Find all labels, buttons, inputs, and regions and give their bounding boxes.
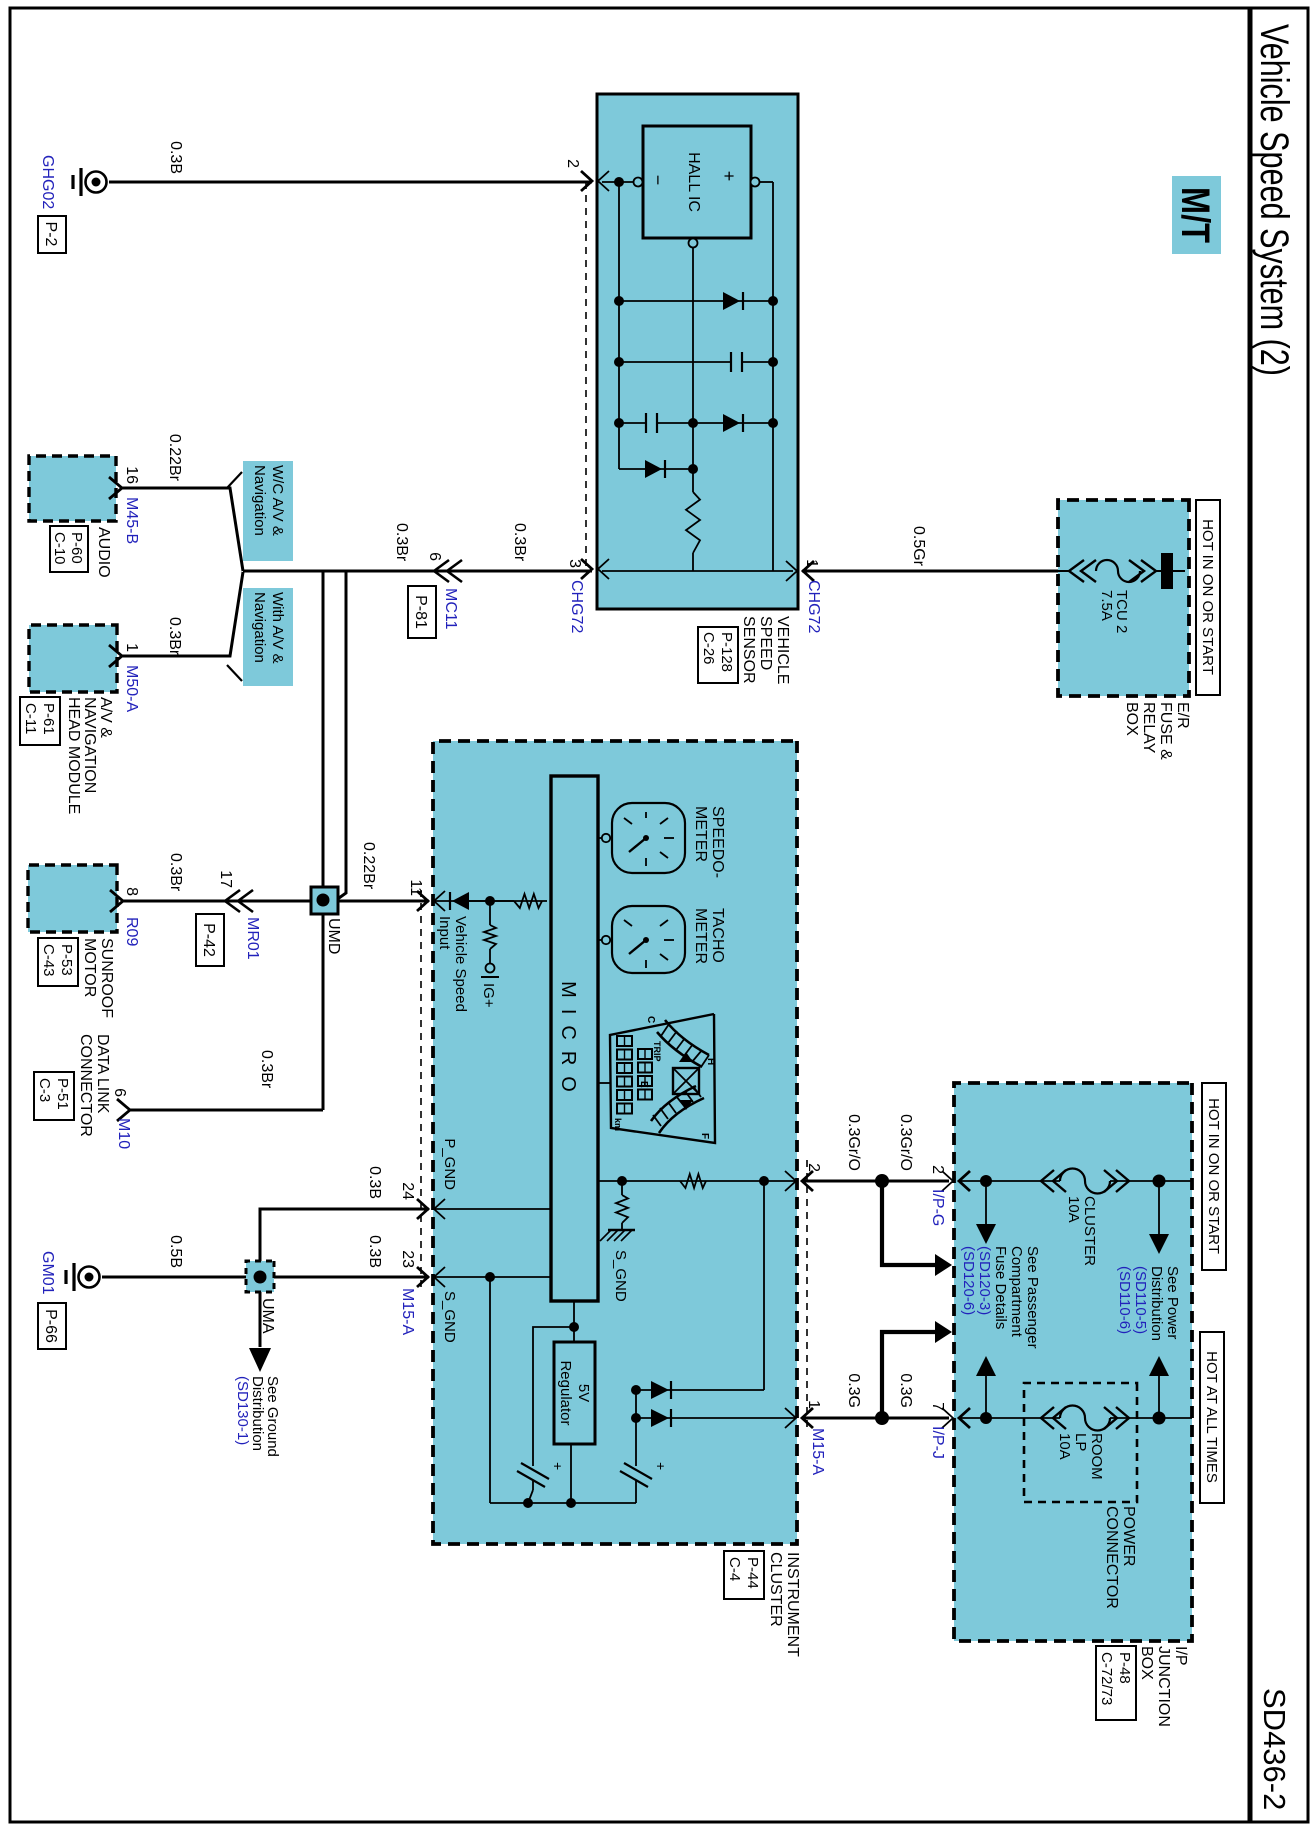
resistor on pin2 wire bbox=[680, 1174, 706, 1188]
svg-text:METER: METER bbox=[692, 908, 709, 964]
svg-text:1: 1 bbox=[123, 643, 140, 652]
svg-text:GHG02: GHG02 bbox=[39, 155, 56, 209]
svg-text:M/T: M/T bbox=[1173, 187, 1217, 243]
svg-text:F: F bbox=[699, 1133, 710, 1139]
svg-text:11: 11 bbox=[407, 879, 424, 896]
svg-text:DATA LINK: DATA LINK bbox=[94, 1034, 111, 1114]
wire UMA to ground distribution arrow bbox=[259, 1292, 262, 1347]
HALL IC box U1 bbox=[643, 126, 751, 238]
svg-text:See Passenger: See Passenger bbox=[1024, 1246, 1041, 1349]
svg-text:0.3Br: 0.3Br bbox=[167, 853, 184, 892]
svg-text:UMA: UMA bbox=[259, 1298, 276, 1334]
IG+ terminal bbox=[486, 964, 495, 973]
branch arrow to fuse details (from pin2 wire) bbox=[882, 1181, 942, 1265]
in-line connector MR01 bbox=[225, 890, 240, 912]
svg-text:0.3B: 0.3B bbox=[366, 1166, 383, 1199]
svg-text:1: 1 bbox=[805, 1400, 822, 1409]
svg-text:A/V &: A/V & bbox=[97, 697, 114, 738]
svg-text:6: 6 bbox=[111, 1088, 128, 1097]
svg-text:2: 2 bbox=[564, 159, 581, 168]
svg-text:UMD: UMD bbox=[325, 918, 342, 954]
svg-text:HOT IN ON OR START: HOT IN ON OR START bbox=[1199, 519, 1216, 675]
svg-text:W/C A/V &: W/C A/V & bbox=[269, 465, 286, 536]
UMD junction dot bbox=[317, 894, 330, 907]
diode D2 row C bbox=[723, 414, 740, 432]
E/R fuse and relay box (blue dashed) bbox=[1058, 500, 1189, 696]
LCD right fuel gauge band bbox=[659, 1098, 704, 1133]
wire dot2 to diode row 1 bbox=[763, 1181, 765, 1390]
LCD connection bbox=[598, 1082, 610, 1084]
svg-text:MC11: MC11 bbox=[442, 588, 459, 630]
branch to see passenger fuse details (left) bbox=[985, 1181, 987, 1228]
sunroof pin 8 connector bbox=[110, 890, 123, 912]
internal center wire to resistor bbox=[692, 247, 694, 492]
internal bottom rail wire bbox=[602, 570, 793, 572]
UMA junction dot bbox=[254, 1271, 267, 1284]
svg-text:I/P: I/P bbox=[1172, 1646, 1189, 1666]
svg-text:See Ground: See Ground bbox=[264, 1376, 281, 1457]
svg-text:MOTOR: MOTOR bbox=[81, 938, 98, 997]
sunroof motor box (blue dashed) bbox=[28, 865, 117, 932]
ground GM01 symbol bbox=[79, 1267, 100, 1288]
wire 0.3B VSS pin 2 to ground GHG02 bbox=[109, 181, 592, 184]
svg-text:LP: LP bbox=[1072, 1433, 1089, 1451]
svg-text:0.3Br: 0.3Br bbox=[258, 1050, 275, 1089]
svg-text:AUDIO: AUDIO bbox=[95, 527, 112, 578]
wire 0.3Br from A/V pin 1 bbox=[122, 572, 243, 656]
svg-text:IG+: IG+ bbox=[480, 983, 497, 1008]
svg-text:0.3Br: 0.3Br bbox=[511, 523, 528, 562]
wire cluster pin 1 to diode row 2 bbox=[636, 1417, 796, 1419]
wire UMD up to cluster pin 11 0.22Br bbox=[338, 900, 429, 903]
wire: HALL IC minus to pin 2 (internal) bbox=[602, 181, 643, 183]
svg-text:C-4: C-4 bbox=[726, 1557, 743, 1581]
I/P junction box (blue dashed) bbox=[954, 1083, 1192, 1641]
svg-text:TACHO: TACHO bbox=[709, 908, 726, 963]
svg-text:HALL IC: HALL IC bbox=[685, 152, 702, 212]
svg-text:SPEEDO-: SPEEDO- bbox=[709, 806, 726, 878]
junction dot S_GND bbox=[485, 1272, 495, 1282]
svg-text:INSTRUMENT: INSTRUMENT bbox=[784, 1552, 801, 1657]
ground ref box P-2 bbox=[38, 216, 66, 253]
svg-text:MR01: MR01 bbox=[244, 917, 261, 960]
VSS pin 2 connector bbox=[581, 171, 592, 191]
wire pin 24 to UMA corner 0.3B bbox=[260, 1209, 429, 1261]
svg-text:10A: 10A bbox=[1065, 1196, 1082, 1223]
svg-text:SUNROOF: SUNROOF bbox=[98, 938, 115, 1018]
branch arrow to fuse details (from pin1 wire) bbox=[882, 1332, 942, 1418]
svg-text:0.22Br: 0.22Br bbox=[360, 842, 377, 890]
AUDIO ref box P-60 C-10 bbox=[50, 526, 88, 572]
svg-text:5V: 5V bbox=[575, 1384, 592, 1402]
svg-text:MICRO: MICRO bbox=[557, 981, 579, 1103]
svg-text:−: − bbox=[648, 175, 668, 186]
joint connector UMD (blue square) bbox=[311, 887, 338, 914]
svg-text:0.3Br: 0.3Br bbox=[393, 523, 410, 562]
LCD digits row 1 (trip) bbox=[638, 1049, 652, 1059]
cluster pin 2 connector bbox=[802, 1171, 813, 1191]
AUDIO pin 16 connector bbox=[109, 477, 122, 499]
svg-text:P_GND: P_GND bbox=[441, 1138, 458, 1190]
S_GND branch wire bbox=[621, 1181, 623, 1195]
junction dots row C bbox=[768, 418, 778, 428]
svg-text:P-81: P-81 bbox=[412, 595, 429, 629]
junction dot power distribution branch (right) bbox=[1153, 1412, 1166, 1425]
svg-text:M15-A: M15-A bbox=[809, 1428, 826, 1475]
wire 0.3G cluster pin1 to I/P pin7 bbox=[802, 1417, 949, 1420]
ground GHG02 symbol bbox=[86, 172, 107, 193]
svg-text:Navigation: Navigation bbox=[251, 465, 268, 536]
svg-text:3: 3 bbox=[566, 559, 583, 568]
capacitor C4 (electrolytic) bbox=[624, 1463, 652, 1479]
svg-text:CLUSTER: CLUSTER bbox=[767, 1552, 784, 1627]
junction dot diode row 2 bbox=[631, 1413, 641, 1423]
svg-text:POWER: POWER bbox=[1120, 1506, 1137, 1566]
svg-text:FUSE &: FUSE & bbox=[1157, 702, 1174, 760]
svg-text:0.3G: 0.3G bbox=[897, 1373, 914, 1408]
svg-text:Distribution: Distribution bbox=[249, 1376, 266, 1451]
svg-text:C-10: C-10 bbox=[51, 532, 68, 565]
svg-text:GM01: GM01 bbox=[39, 1251, 56, 1295]
junction dot diode row 1 bbox=[631, 1385, 641, 1395]
svg-text:0.3Gr/O: 0.3Gr/O bbox=[897, 1114, 914, 1171]
5V regulator box bbox=[554, 1342, 595, 1444]
svg-text:7.5A: 7.5A bbox=[1098, 590, 1115, 621]
terminal circle at HALL IC minus bbox=[634, 178, 643, 187]
junction dot power distribution branch (left) bbox=[1153, 1175, 1166, 1188]
svg-text:Navigation: Navigation bbox=[251, 592, 268, 663]
svg-text:+: + bbox=[550, 1462, 566, 1470]
wire from UMA up to cluster pin 23 0.3B bbox=[274, 1276, 429, 1279]
fuse CLUSTER 10A (internal wire) bbox=[959, 1180, 1060, 1182]
svg-text:0.3G: 0.3G bbox=[845, 1373, 862, 1408]
svg-text:VEHICLE: VEHICLE bbox=[774, 616, 791, 684]
svg-text:RELAY: RELAY bbox=[1140, 702, 1157, 754]
svg-text:P-42: P-42 bbox=[200, 923, 217, 957]
svg-text:NAVIGATION: NAVIGATION bbox=[81, 697, 98, 793]
svg-text:1: 1 bbox=[803, 559, 820, 568]
vehicle speed input wire pin11 to MICRO bbox=[433, 900, 547, 902]
VSS pin 3 connector bbox=[581, 559, 592, 579]
POWER CONNECTOR sub-box (dashed) bbox=[1024, 1383, 1137, 1502]
svg-text:P-61: P-61 bbox=[40, 703, 57, 735]
A/V module pin 1 connector bbox=[109, 645, 122, 667]
speedometer connection bbox=[598, 837, 612, 839]
junction dot regulator input bbox=[569, 1322, 579, 1332]
svg-text:Vehicle Speed System (2): Vehicle Speed System (2) bbox=[1252, 24, 1296, 376]
svg-text:+: + bbox=[719, 171, 739, 182]
svg-text:P-53: P-53 bbox=[58, 944, 75, 976]
joint connector UMA (blue dashed square) bbox=[246, 1261, 274, 1292]
svg-text:I/P-G: I/P-G bbox=[929, 1189, 946, 1226]
svg-text:ROOM: ROOM bbox=[1088, 1433, 1105, 1480]
option label W/C A/V & Navigation bbox=[243, 461, 293, 561]
terminal circle at HALL IC plus bbox=[751, 178, 760, 187]
M/T tag bbox=[1172, 176, 1221, 254]
HOT AT ALL TIMES label box bbox=[1200, 1332, 1224, 1503]
wire UMD down to sunroof motor bbox=[123, 900, 311, 903]
wire MICRO to regulator bbox=[573, 1301, 575, 1342]
cluster ref box P-44 C-4 bbox=[724, 1551, 764, 1599]
svg-text:C-3: C-3 bbox=[36, 1078, 53, 1102]
in-line connector MC11 bbox=[434, 560, 449, 582]
junction dot row D bbox=[688, 464, 698, 474]
junction dot near MICRO bbox=[617, 1176, 627, 1186]
I/P pin 7 connector bbox=[959, 1408, 970, 1428]
internal top rail wire bbox=[772, 182, 774, 571]
svg-text:S_GND: S_GND bbox=[612, 1250, 629, 1302]
wire 0.5Gr fuse to VSS pin 1 bbox=[802, 570, 1058, 573]
LCD left temp gauge band bbox=[665, 1020, 709, 1055]
ground distribution arrow bbox=[249, 1348, 271, 1372]
svg-text:JUNCTION: JUNCTION bbox=[1155, 1646, 1172, 1727]
option slash mark With bbox=[227, 665, 242, 681]
svg-text:16: 16 bbox=[123, 466, 140, 484]
svg-text:0.3Gr/O: 0.3Gr/O bbox=[845, 1114, 862, 1171]
svg-text:2: 2 bbox=[805, 1163, 822, 1172]
junction dot to diodes branch bbox=[759, 1176, 769, 1186]
svg-text:24: 24 bbox=[399, 1182, 416, 1200]
connector M15-A dashed line (bottom pins) bbox=[420, 890, 422, 1290]
data link ref box P-51 C-3 bbox=[34, 1072, 74, 1120]
tachometer connection bbox=[598, 939, 612, 941]
sunroof ref box P-53 C-43 bbox=[38, 938, 78, 986]
wire regulator input branch to capacitor C5 bbox=[533, 1327, 574, 1466]
svg-text:Vehicle Speed: Vehicle Speed bbox=[452, 916, 469, 1012]
svg-text:Input: Input bbox=[436, 916, 453, 950]
svg-text:P-66: P-66 bbox=[42, 1309, 59, 1343]
P_GND wire pin 24 to MICRO bbox=[433, 1208, 551, 1210]
svg-text:6: 6 bbox=[426, 552, 443, 561]
junction dot IG+ branch bbox=[485, 896, 495, 906]
branch to see passenger fuse details (right arrow) bbox=[985, 1370, 987, 1418]
svg-text:HOT AT ALL TIMES: HOT AT ALL TIMES bbox=[1203, 1351, 1220, 1483]
svg-text:M10: M10 bbox=[115, 1118, 132, 1149]
svg-text:(SD110-5): (SD110-5) bbox=[1132, 1266, 1149, 1334]
resistor on vehicle speed input bbox=[514, 894, 542, 908]
svg-text:SPEED: SPEED bbox=[757, 616, 774, 670]
svg-text:CLUSTER: CLUSTER bbox=[1081, 1196, 1098, 1266]
svg-text:0.3B: 0.3B bbox=[366, 1235, 383, 1268]
S_GND wire pin 23 to MICRO bbox=[433, 1276, 551, 1278]
resistor R internal VSS bbox=[686, 492, 700, 553]
svg-text:CHG72: CHG72 bbox=[805, 580, 822, 633]
option label With A/V & Navigation bbox=[243, 588, 293, 686]
terminal circle at HALL IC output bbox=[689, 239, 698, 248]
instrument cluster box (blue dashed) bbox=[433, 741, 797, 1544]
cluster pin 11 connector bbox=[417, 891, 428, 911]
svg-text:H: H bbox=[705, 1058, 716, 1065]
junction dot branch fuse details (right) bbox=[875, 1411, 889, 1425]
svg-text:With A/V &: With A/V & bbox=[269, 592, 286, 664]
HOT IN ON OR START label box (left) bbox=[1196, 500, 1220, 695]
svg-text:P-60: P-60 bbox=[68, 532, 85, 564]
svg-text:E/R: E/R bbox=[1174, 702, 1191, 729]
svg-text:0.5B: 0.5B bbox=[167, 1235, 184, 1268]
svg-text:SD436-2: SD436-2 bbox=[1257, 1688, 1292, 1810]
svg-text:10A: 10A bbox=[1056, 1433, 1073, 1460]
wire capacitor C4 to ground bus bbox=[635, 1480, 637, 1503]
junction dot on minus wire bbox=[614, 177, 624, 187]
svg-text:C-72/73: C-72/73 bbox=[1098, 1652, 1115, 1705]
svg-text:0.3B: 0.3B bbox=[167, 141, 184, 174]
connector M15-A dashed line (top pins) bbox=[806, 1160, 808, 1430]
diode D4 on vehicle speed input bbox=[452, 892, 469, 910]
cluster pin 24 connector bbox=[417, 1199, 428, 1219]
branch to see power distribution (left arrow) bbox=[1158, 1370, 1160, 1418]
svg-text:km: km bbox=[613, 1118, 623, 1131]
A/V ref box P-61 C-11 bbox=[20, 697, 60, 745]
cluster pin 23 connector bbox=[417, 1267, 428, 1287]
junction dot branch fuse details (left) bbox=[875, 1174, 889, 1188]
I/P pin 2 connector (to cluster) bbox=[959, 1171, 970, 1191]
branch to see power distribution (left) bbox=[1158, 1181, 1160, 1238]
svg-text:Compartment: Compartment bbox=[1008, 1246, 1025, 1338]
tachometer gauge bbox=[612, 906, 685, 973]
wire 0.22Br from AUDIO pin 16 bbox=[122, 488, 243, 571]
MR01 ref box P-42 bbox=[196, 914, 224, 966]
diode D6 (pin 1 line) bbox=[651, 1409, 669, 1427]
svg-text:(SD120-3): (SD120-3) bbox=[976, 1246, 993, 1315]
svg-text:C-11: C-11 bbox=[22, 703, 39, 734]
diode D1 row A bbox=[723, 292, 740, 310]
svg-text:0.3Br: 0.3Br bbox=[166, 617, 183, 656]
svg-text:SENSOR: SENSOR bbox=[740, 616, 757, 684]
svg-text:CONNECTOR: CONNECTOR bbox=[1103, 1506, 1120, 1609]
wire branch to UMD (upper) bbox=[332, 571, 346, 903]
svg-text:2: 2 bbox=[929, 1165, 946, 1174]
svg-text:0.22Br: 0.22Br bbox=[166, 434, 183, 482]
wire 0.3Br UMD to data link connector bbox=[130, 1109, 323, 1112]
chassis ground S_GND symbol bbox=[608, 1229, 635, 1232]
svg-text:(SD120-6): (SD120-6) bbox=[960, 1246, 977, 1315]
HOT IN ON OR START label box (right) bbox=[1202, 1083, 1226, 1270]
fuse TCU 2 7.5A bbox=[1161, 553, 1173, 589]
VSS pin 1 connector bbox=[803, 561, 814, 581]
junction dots on bus bbox=[566, 1498, 576, 1508]
svg-text:Regulator: Regulator bbox=[557, 1360, 574, 1425]
option slash mark W/C bbox=[227, 472, 242, 488]
svg-text:See Power: See Power bbox=[1164, 1266, 1181, 1339]
connector CHG72 dashed link pins 2-3 bbox=[585, 182, 587, 569]
svg-text:(SD130-1): (SD130-1) bbox=[234, 1376, 251, 1445]
MC11 ref box P-81 bbox=[408, 586, 436, 638]
svg-text:CHG72: CHG72 bbox=[568, 580, 585, 633]
svg-text:+: + bbox=[653, 1462, 669, 1470]
svg-text:R09: R09 bbox=[123, 917, 140, 946]
svg-text:TRIP: TRIP bbox=[652, 1041, 662, 1062]
svg-text:(SD110-6): (SD110-6) bbox=[1116, 1266, 1133, 1334]
wire UMA down to ground GM01 0.5B bbox=[102, 1276, 246, 1279]
capacitor C2 row C bbox=[656, 413, 658, 433]
junction dots row A bbox=[768, 296, 778, 306]
wire capacitor C5 to ground bus bbox=[532, 1480, 534, 1490]
svg-text:BOX: BOX bbox=[1138, 1646, 1155, 1680]
svg-text:P-2: P-2 bbox=[42, 222, 59, 247]
svg-text:HOT IN ON OR START: HOT IN ON OR START bbox=[1205, 1098, 1222, 1254]
capacitor C5 (electrolytic) bbox=[521, 1463, 549, 1479]
MICRO box bbox=[551, 776, 598, 1301]
svg-text:M15-A: M15-A bbox=[399, 1288, 416, 1335]
svg-text:Distribution: Distribution bbox=[1148, 1266, 1165, 1341]
svg-text:M50-A: M50-A bbox=[123, 665, 140, 712]
svg-text:Fuse Details: Fuse Details bbox=[992, 1246, 1009, 1329]
AUDIO component box (blue dashed) bbox=[29, 456, 116, 521]
IG+ branch wire bbox=[489, 901, 491, 925]
LCD digits row 2 (odometer) bbox=[617, 1036, 632, 1046]
internal left rail wire bbox=[618, 182, 620, 469]
speedometer gauge bbox=[612, 803, 685, 873]
svg-text:17: 17 bbox=[217, 870, 234, 888]
wire regulator output to bus bbox=[570, 1444, 572, 1503]
LCD display icon bbox=[610, 1014, 715, 1143]
svg-text:TCU 2: TCU 2 bbox=[1113, 590, 1130, 633]
svg-text:P-128: P-128 bbox=[718, 632, 735, 672]
row D wire (diode) bbox=[619, 468, 693, 470]
vehicle speed sensor box (blue) bbox=[597, 94, 798, 609]
resistor IG+ branch bbox=[484, 925, 496, 949]
S_GND wire to bus bbox=[489, 1277, 491, 1503]
row C wire (diode + capacitor) bbox=[657, 422, 773, 424]
svg-text:0.5Gr: 0.5Gr bbox=[910, 526, 927, 567]
svg-text:CONNECTOR: CONNECTOR bbox=[77, 1034, 94, 1137]
svg-text:BOX: BOX bbox=[1123, 702, 1140, 736]
svg-text:C-26: C-26 bbox=[700, 632, 717, 665]
wire 0.3Gr/O cluster pin2 to I/P pin2 bbox=[802, 1180, 949, 1183]
row A wire (diode to rails) bbox=[619, 300, 773, 302]
svg-text:P-48: P-48 bbox=[1116, 1652, 1133, 1684]
junction dots row B bbox=[768, 357, 778, 367]
wire 0.3Br merge to VSS pin 3 bbox=[243, 570, 592, 573]
svg-text:23: 23 bbox=[399, 1250, 416, 1268]
svg-text:8: 8 bbox=[123, 887, 140, 896]
I/P ref box P-48 C-72/73 bbox=[1096, 1646, 1136, 1720]
cluster pin 1 connector bbox=[802, 1408, 813, 1428]
svg-text:C-43: C-43 bbox=[40, 944, 57, 977]
row B wire (capacitor) bbox=[743, 361, 773, 363]
svg-text:METER: METER bbox=[692, 806, 709, 862]
ground bus wire (vertical) bbox=[490, 1502, 636, 1504]
svg-text:P-44: P-44 bbox=[744, 1557, 761, 1589]
svg-text:HEAD MODULE: HEAD MODULE bbox=[65, 697, 82, 814]
svg-text:I/P-J: I/P-J bbox=[929, 1426, 946, 1459]
wire: plus circle to top rail bbox=[759, 181, 773, 183]
title strip separator line bbox=[1248, 8, 1253, 1822]
A/V & Navigation head module box (blue dashed) bbox=[29, 625, 117, 692]
LCD car icon bbox=[673, 1068, 699, 1094]
capacitor C1 row B bbox=[741, 352, 743, 372]
diode D5 (to 5V line) bbox=[651, 1381, 669, 1399]
svg-text:P-51: P-51 bbox=[54, 1078, 71, 1110]
diode D3 row D bbox=[645, 460, 662, 478]
ground ref box P-66 bbox=[38, 1303, 66, 1349]
svg-text:M45-B: M45-B bbox=[123, 497, 140, 544]
wire resistor to bottom rail bbox=[692, 553, 694, 571]
VSS connector ref box P-128 C-26 bbox=[698, 627, 738, 683]
wire diode junctions to capacitor C4 bbox=[635, 1390, 637, 1466]
svg-text:C: C bbox=[645, 1016, 656, 1023]
data link pin 6 connector bbox=[117, 1099, 130, 1121]
wire branch through UMD to data link corner bbox=[322, 571, 325, 1110]
svg-text:7: 7 bbox=[929, 1402, 946, 1411]
wire cluster pin 2 to MICRO (internal) bbox=[598, 1180, 796, 1182]
svg-text:S_GND: S_GND bbox=[441, 1291, 458, 1343]
fuse ROOM LP 10A (internal wire) bbox=[959, 1417, 1060, 1419]
